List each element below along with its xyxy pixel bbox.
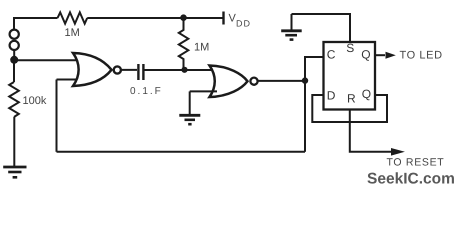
svg-text:R: R [347,92,356,106]
wire top rail right segment [87,17,222,19]
svg-text:Q: Q [361,48,370,62]
node junction right [302,77,308,83]
svg-text:C: C [327,48,336,62]
terminal circle upper [10,30,19,39]
svg-text:TO LED: TO LED [400,50,443,62]
wire feedback riser left [56,80,58,152]
resistor R3 1M vertical [179,18,189,69]
wire node right up to C pin [305,57,324,81]
arrowhead TO RESET [391,148,405,156]
node junction mid [181,67,187,73]
svg-text:1M: 1M [194,42,209,54]
svg-text:0.1.F: 0.1.F [130,86,163,97]
ground G3 [291,14,293,31]
wire feedback line bottom [57,151,306,153]
capacitor C1 plate left [137,64,139,80]
svg-text:100k: 100k [23,95,47,107]
resistor R1 1M horizontal [58,12,88,23]
wire gate2 input B to ground [189,91,191,115]
terminal VDD bar [222,12,224,25]
svg-text:S: S [346,41,354,55]
wire top rail left segment [14,17,58,19]
svg-text:D: D [327,89,336,103]
wire left drop from top rail [13,17,15,30]
wire node to gate1 input A [14,59,77,61]
wire 100k to ground [13,117,15,167]
capacitor C1 plate right [142,64,144,80]
ground G1 [3,166,26,169]
wire D to Qbar loop [312,95,387,122]
wire circle to node [13,50,15,60]
wire Q output to LED arrow [375,54,385,56]
resistor R2 100k vertical [9,82,19,117]
node junction left [10,56,18,64]
wire node mid to gate2 input A [184,69,217,71]
wire gate1 output to capacitor [121,69,137,71]
flip-flop U2 box [324,42,376,110]
arrowhead TO LED [386,52,396,59]
gate U1b output bubble [250,78,257,85]
ground G2 [179,114,200,117]
gate U1a output bubble [114,66,121,73]
wire S pin to ground [292,14,351,42]
svg-text:1M: 1M [65,27,80,39]
wire node down to 100k [13,60,15,82]
wire gate2 lower input B [190,90,217,92]
node junction top rail [180,14,187,21]
svg-text:SeekIC.com: SeekIC.com [367,171,455,188]
wire node right down to feedback line [304,81,306,152]
wire R pin down to reset line [350,110,392,152]
op... gate U1a NOR body [73,53,112,86]
svg-text:Q: Q [362,87,371,101]
svg-text:TO RESET: TO RESET [387,157,445,169]
terminal circle lower [10,41,19,50]
wire capacitor to node mid [145,69,183,71]
svg-text:DD: DD [236,19,251,29]
wire gate1 lower input B [57,79,78,81]
gate U1b NOR body [210,66,248,98]
wire gate2 output to node right [258,80,303,82]
